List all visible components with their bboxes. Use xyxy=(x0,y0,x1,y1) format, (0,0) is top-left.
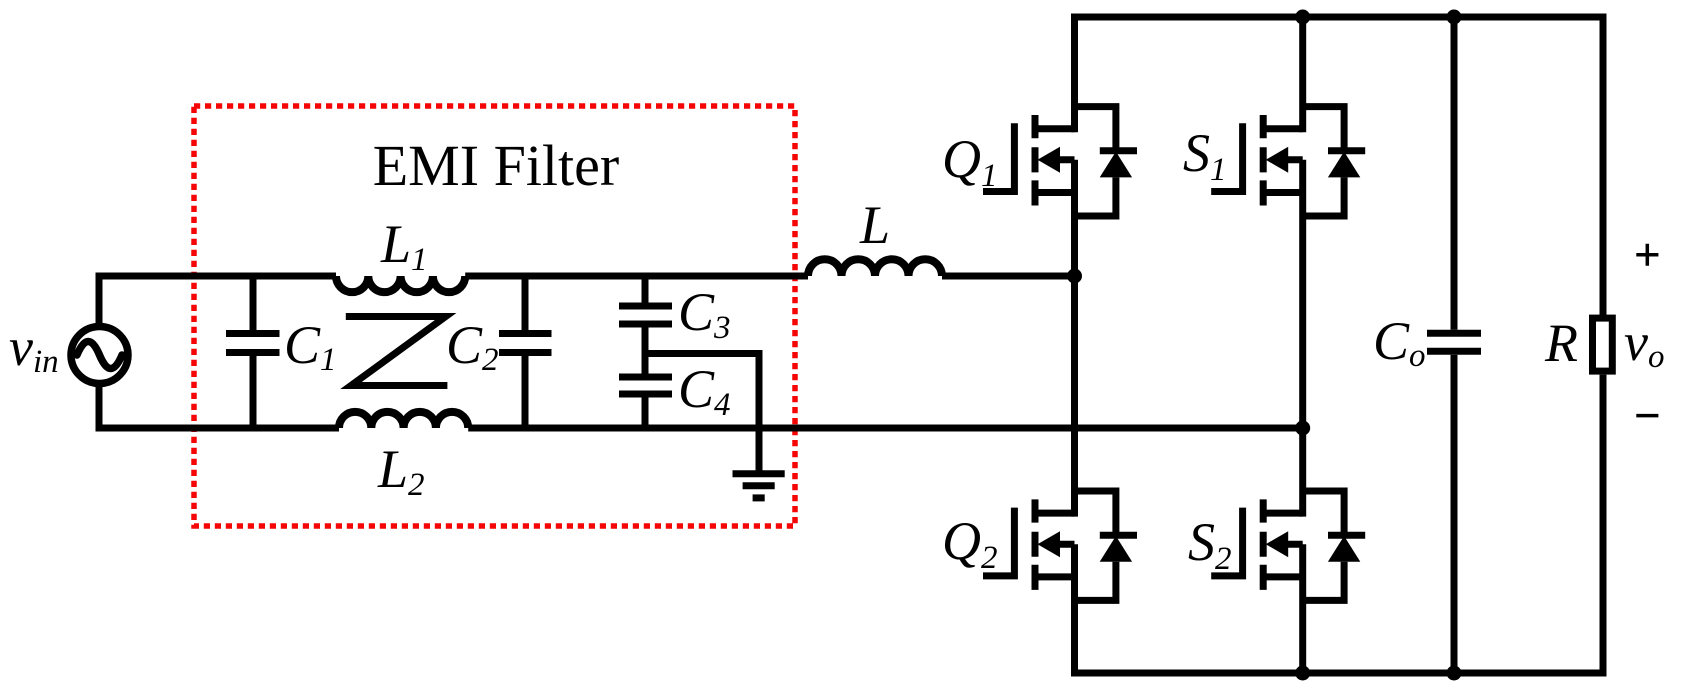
transistor S2 xyxy=(1211,491,1365,600)
coupling symbol Z between L1 and L2 xyxy=(346,317,448,386)
capacitor C4 xyxy=(619,377,672,428)
capacitor C1 xyxy=(226,276,280,428)
wire bottom bus rail xyxy=(1075,670,1607,677)
inductor L1 xyxy=(336,276,465,292)
wire C3-C4 midpoint to ground xyxy=(645,354,759,471)
wire vin top lead xyxy=(96,276,103,327)
ac source vin xyxy=(71,327,128,384)
label minus xyxy=(1636,414,1658,418)
wire top middle segment xyxy=(465,273,808,280)
svg-text:vin: vin xyxy=(9,317,59,380)
node top rail S leg xyxy=(1295,10,1310,25)
capacitor C3 xyxy=(619,276,672,374)
transistor Q1 xyxy=(983,107,1137,216)
wire bottom rail left segment xyxy=(96,425,340,432)
svg-text:L2: L2 xyxy=(377,439,425,503)
svg-text:C3: C3 xyxy=(678,282,731,346)
wire right bridge leg xyxy=(1299,14,1306,677)
svg-text:EMI Filter: EMI Filter xyxy=(373,133,619,198)
capacitor Co xyxy=(1427,17,1481,673)
ground xyxy=(733,474,785,498)
node L-Q junction xyxy=(1067,269,1082,284)
resistor R xyxy=(1593,14,1613,677)
svg-text:C1: C1 xyxy=(284,315,337,378)
svg-text:vo: vo xyxy=(1624,312,1664,375)
svg-text:C4: C4 xyxy=(678,359,731,423)
node bottom rail Co xyxy=(1447,666,1462,681)
node top rail Co xyxy=(1447,10,1462,25)
svg-text:C2: C2 xyxy=(446,315,499,378)
svg-text:Co: Co xyxy=(1373,311,1426,374)
svg-text:L1: L1 xyxy=(380,214,428,278)
inductor L2 xyxy=(339,412,468,428)
wire top rail left segment xyxy=(96,273,337,280)
label plus xyxy=(1636,244,1658,266)
svg-text:Q2: Q2 xyxy=(942,511,998,576)
EMI filter dashed box xyxy=(194,106,795,526)
svg-text:S2: S2 xyxy=(1188,512,1232,577)
transistor Q2 xyxy=(983,491,1137,600)
transistor S1 xyxy=(1211,107,1365,216)
wire bottom segment to S leg xyxy=(468,425,1302,432)
capacitor C2 xyxy=(499,276,552,428)
svg-text:L: L xyxy=(859,195,890,255)
inductor L xyxy=(808,259,942,276)
svg-text:S1: S1 xyxy=(1183,123,1227,188)
svg-text:R: R xyxy=(1544,313,1578,373)
node bottom rail S leg xyxy=(1295,666,1310,681)
wire left bridge leg xyxy=(1071,14,1078,677)
node bottom wire to S leg junction xyxy=(1295,421,1310,436)
wire vin bottom lead xyxy=(96,384,103,429)
wire L to bridge xyxy=(942,273,1075,280)
wire top bus rail xyxy=(1075,14,1607,21)
svg-text:Q1: Q1 xyxy=(942,129,998,194)
